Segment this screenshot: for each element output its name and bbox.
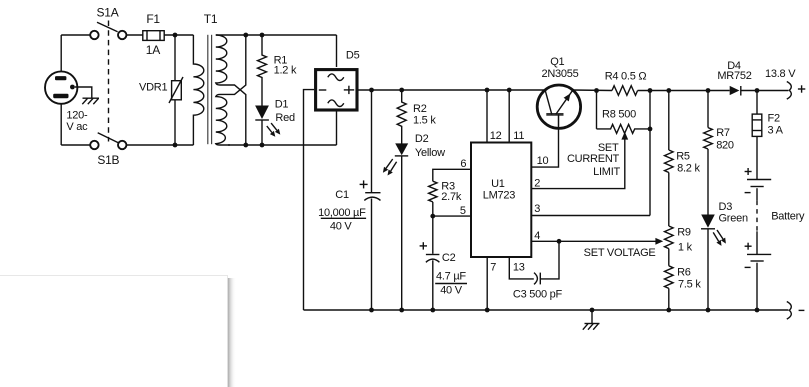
potentiometer R8 xyxy=(597,124,651,133)
svg-text:820: 820 xyxy=(716,140,734,152)
ground xyxy=(583,310,600,330)
wire R8 right down to pin 3 xyxy=(649,129,651,216)
svg-text:40 V: 40 V xyxy=(330,221,353,233)
transistor Q1 xyxy=(537,85,580,128)
switch S1A left contact xyxy=(90,31,98,39)
wire pin 11 xyxy=(508,90,510,143)
R9 wiper arrow head xyxy=(655,238,663,245)
node dot R2 top xyxy=(399,88,404,93)
wire C2 lower lead xyxy=(432,260,434,310)
resistor R7 xyxy=(704,128,713,149)
svg-text:LIMIT: LIMIT xyxy=(593,166,620,178)
svg-text:D3: D3 xyxy=(719,201,733,213)
transformer T1 core xyxy=(208,35,212,144)
battery cell1 minus xyxy=(745,192,751,194)
node dot R4 right xyxy=(648,88,653,93)
svg-text:40 V: 40 V xyxy=(440,285,463,297)
svg-text:6: 6 xyxy=(460,158,466,170)
node dot R7 top xyxy=(706,88,711,93)
node dot VDR top xyxy=(173,33,178,38)
node dot pin5 junction xyxy=(430,214,435,219)
switch S1B left contact xyxy=(90,141,98,149)
svg-text:2: 2 xyxy=(534,177,540,189)
wire S1A to F1 xyxy=(126,34,142,36)
resistor R3 xyxy=(429,181,437,202)
LED D3 xyxy=(701,215,715,229)
wire S1B to transformer primary bottom xyxy=(126,144,193,146)
R8 wiper arrow head xyxy=(621,132,628,140)
node dot R6 bottom xyxy=(666,308,671,313)
node dot D1 bottom xyxy=(260,143,265,148)
capacitor C2 xyxy=(426,255,440,263)
wire pin 2 to R8 wiper xyxy=(531,139,625,189)
wire R8 left leg xyxy=(596,91,598,129)
node dot R8 right xyxy=(648,126,653,131)
svg-text:Green: Green xyxy=(719,213,748,225)
wire battery to bottom rail xyxy=(756,263,758,310)
battery cell 2 xyxy=(747,254,771,261)
svg-text:120-: 120- xyxy=(66,110,88,122)
transformer T1 secondary lower half with crossover xyxy=(216,35,246,145)
wire R3 bottom to pin 5 xyxy=(432,202,434,216)
node dot secondary top xyxy=(243,33,248,38)
wire D2 to bottom rail xyxy=(401,156,403,310)
diode D4 xyxy=(730,86,741,96)
wire top rail to S1A xyxy=(61,34,90,36)
varistor VDR1 xyxy=(169,77,183,103)
node dot VDR bottom xyxy=(173,143,178,148)
svg-text:VDR1: VDR1 xyxy=(139,82,167,94)
node dot F2 top xyxy=(755,88,760,93)
svg-text:3 A: 3 A xyxy=(768,124,784,136)
capacitor C3 xyxy=(534,273,540,285)
wire battery link upper xyxy=(756,188,758,200)
wire D1 to bottom rail xyxy=(261,120,263,145)
wire rail R4 to R5 xyxy=(638,90,669,92)
transformer T1 secondary upper half with crossover xyxy=(216,35,246,145)
svg-text:13: 13 xyxy=(513,262,525,274)
svg-text:2N3055: 2N3055 xyxy=(541,68,578,80)
node dot pin12 rail xyxy=(485,88,490,93)
wire pin 6 xyxy=(433,169,471,181)
wire R9 to R6 xyxy=(668,249,670,266)
output minus sign xyxy=(799,309,805,311)
svg-text:D5: D5 xyxy=(346,49,360,61)
svg-text:8.2 k: 8.2 k xyxy=(677,162,700,174)
wire secondary bottom rail xyxy=(228,144,337,146)
svg-text:U1: U1 xyxy=(491,178,505,190)
svg-text:Yellow: Yellow xyxy=(415,147,445,159)
node dot C2 bottom xyxy=(430,308,435,313)
wire rail D4 to output xyxy=(741,90,789,92)
node dot battery bottom xyxy=(755,308,760,313)
wire left vertical from plug top xyxy=(60,35,62,76)
resistor R4 xyxy=(612,86,638,96)
svg-text:T1: T1 xyxy=(204,12,218,26)
svg-text:Q1: Q1 xyxy=(550,56,564,68)
wire pin 13 xyxy=(509,257,534,279)
switch S1B right contact xyxy=(118,141,126,149)
plug ground pin xyxy=(70,85,75,90)
svg-text:SET: SET xyxy=(598,142,619,154)
C2 plus sign xyxy=(420,242,427,249)
wire rail R5 to R7 xyxy=(669,90,730,92)
wire pin 7 xyxy=(486,257,488,310)
svg-text:10: 10 xyxy=(537,155,549,167)
LED D3 arrows xyxy=(713,230,726,246)
wire C1 lower lead xyxy=(371,199,373,311)
node dot C1 bottom xyxy=(369,308,374,313)
dashed battery link xyxy=(756,201,758,232)
output plus sign xyxy=(798,85,805,92)
svg-text:1 k: 1 k xyxy=(678,241,693,253)
svg-text:7: 7 xyxy=(490,262,496,274)
wire from ground pin xyxy=(75,87,92,98)
wire F2 upper lead xyxy=(756,91,758,115)
wire R8 right leg to rail xyxy=(649,91,651,129)
svg-text:F2: F2 xyxy=(768,112,780,124)
wire top rail down to bridge xyxy=(336,35,338,67)
wire F1 to transformer xyxy=(164,34,193,36)
svg-text:1.2 k: 1.2 k xyxy=(274,65,297,77)
node dot D3 bottom xyxy=(706,308,711,313)
svg-text:CURRENT: CURRENT xyxy=(567,153,620,165)
battery cell2 minus xyxy=(745,266,751,268)
LED D1 arrows xyxy=(267,123,281,137)
wire R7 to D3 xyxy=(707,149,709,215)
wire bridge plus output rail xyxy=(358,89,545,91)
svg-text:5: 5 xyxy=(460,205,466,217)
op-amp U1 LM723 box xyxy=(471,143,531,258)
LED D2 xyxy=(395,143,408,156)
node dot R5 top xyxy=(666,88,671,93)
svg-text:D1: D1 xyxy=(275,99,289,111)
bridge minus sign xyxy=(319,89,327,91)
svg-text:SET VOLTAGE: SET VOLTAGE xyxy=(584,247,656,259)
svg-text:R9: R9 xyxy=(677,227,691,239)
svg-text:R2: R2 xyxy=(413,103,427,115)
svg-text:7.5 k: 7.5 k xyxy=(678,278,701,290)
switch S1B blade xyxy=(98,133,119,143)
svg-text:V ac: V ac xyxy=(66,121,88,133)
node dot pin11 rail xyxy=(507,88,512,93)
svg-text:S1A: S1A xyxy=(97,6,119,20)
AC plug body xyxy=(45,71,77,103)
svg-text:C1: C1 xyxy=(335,189,349,201)
wire pin 12 xyxy=(486,90,488,143)
svg-text:12: 12 xyxy=(490,130,502,142)
wire bridge bottom ac lead xyxy=(336,111,338,145)
node dot ground xyxy=(590,308,595,313)
wire bottom rail xyxy=(304,309,789,311)
svg-text:11: 11 xyxy=(513,130,524,142)
wire bridge minus output xyxy=(304,90,315,310)
wire F2 to battery xyxy=(756,136,758,179)
dashed gang link S1A-S1B xyxy=(108,21,110,142)
svg-text:MR752: MR752 xyxy=(717,70,751,82)
resistor R6 xyxy=(665,266,674,289)
bridge rectifier D5 xyxy=(316,70,357,110)
node dot R1 top xyxy=(260,33,265,38)
wire pin 10 to Q1 base xyxy=(531,128,558,167)
output terminal plus curve xyxy=(787,82,792,100)
resistor R1 xyxy=(258,35,267,106)
wire VDR lower lead xyxy=(174,100,176,145)
wire C3 to pin4 xyxy=(540,241,559,279)
svg-text:1.5 k: 1.5 k xyxy=(413,115,436,127)
svg-text:R4 0.5 Ω: R4 0.5 Ω xyxy=(605,71,647,83)
svg-text:4: 4 xyxy=(534,230,540,242)
wire rail Q1 emitter to R4 xyxy=(573,89,613,92)
fraction bar C2 xyxy=(435,283,467,285)
resistor R5 xyxy=(665,150,674,173)
C1 plus sign xyxy=(360,180,368,188)
white overlay box xyxy=(0,276,236,387)
LED D2 arrows xyxy=(383,159,397,176)
battery cell 1 xyxy=(747,180,771,187)
wire pin5 down to C2 xyxy=(432,216,434,254)
node dot C3 pin4 junction xyxy=(557,239,562,244)
fuse F2 xyxy=(752,114,762,136)
svg-text:R7: R7 xyxy=(716,127,730,139)
wire D3 to bottom rail xyxy=(707,229,709,310)
svg-text:2.7k: 2.7k xyxy=(441,191,462,203)
bridge plus sign xyxy=(344,86,354,94)
svg-text:Red: Red xyxy=(275,112,295,124)
output terminal minus curve xyxy=(787,302,792,320)
svg-text:R5: R5 xyxy=(676,151,690,163)
wire battery link lower xyxy=(756,231,758,254)
svg-text:1A: 1A xyxy=(146,43,160,57)
plug bottom prong xyxy=(53,94,68,99)
wire R5 upper lead xyxy=(668,91,670,151)
wire C1 upper lead xyxy=(371,90,373,192)
chassis ground at plug xyxy=(82,98,99,104)
switch S1A blade xyxy=(97,22,118,32)
wire pin 4 to R9 wiper xyxy=(531,240,655,242)
svg-text:Battery: Battery xyxy=(771,210,805,222)
svg-text:D2: D2 xyxy=(415,133,429,145)
battery cell2 plus xyxy=(745,243,752,250)
battery cell1 plus xyxy=(745,168,752,175)
bridge bottom ac symbol xyxy=(328,100,344,107)
node dot C1 top xyxy=(369,88,374,93)
svg-text:R8 500: R8 500 xyxy=(602,108,636,120)
svg-text:F1: F1 xyxy=(146,12,160,26)
wire left vertical from plug bottom xyxy=(60,96,62,145)
svg-text:LM723: LM723 xyxy=(483,189,516,201)
svg-text:13.8 V: 13.8 V xyxy=(765,68,796,80)
wire R5 to R9 xyxy=(668,173,670,227)
svg-text:C3 500 pF: C3 500 pF xyxy=(513,289,563,301)
capacitor C1 xyxy=(364,193,380,201)
wire R7 upper lead xyxy=(707,91,709,128)
svg-text:3: 3 xyxy=(534,203,540,215)
wire pin 5 xyxy=(433,215,471,217)
svg-text:R6: R6 xyxy=(677,267,691,279)
node dot secondary bottom xyxy=(243,143,248,148)
wire bottom rail to S1B xyxy=(61,144,90,146)
wire secondary top rail xyxy=(216,34,337,36)
bridge top ac symbol xyxy=(328,74,344,81)
potentiometer R9 xyxy=(665,226,674,249)
LED D1 xyxy=(255,106,269,121)
wire pin 3 xyxy=(531,215,650,217)
node dot D2 bottom xyxy=(399,308,404,313)
resistor R2 xyxy=(397,90,406,144)
node dot R8 left xyxy=(594,88,599,93)
wire R6 to bottom rail xyxy=(668,288,670,310)
plug top prong xyxy=(55,76,66,80)
svg-text:10,000 µF: 10,000 µF xyxy=(318,207,366,219)
svg-text:C2: C2 xyxy=(442,252,456,264)
svg-text:S1B: S1B xyxy=(97,153,119,167)
node dot pin7 bottom xyxy=(485,308,490,313)
svg-text:4.7 µF: 4.7 µF xyxy=(436,270,466,282)
switch S1A right contact xyxy=(118,31,126,39)
transformer T1 primary winding xyxy=(193,35,203,145)
wire VDR upper lead xyxy=(174,35,176,81)
fuse F1 xyxy=(143,31,164,41)
fraction bar C1 xyxy=(321,217,366,219)
